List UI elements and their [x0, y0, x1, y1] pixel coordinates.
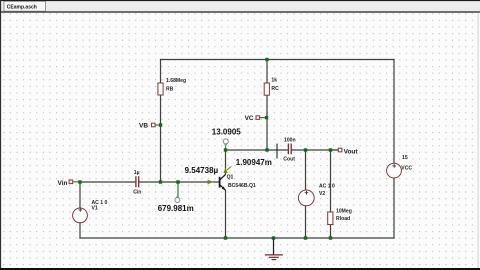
wire Rref bottom vertical [330, 225, 332, 239]
wire RB top vertical [160, 60, 162, 84]
wire collector rail left [226, 149, 288, 151]
node Vin port [58, 180, 73, 187]
svg-text:Rload: Rload [336, 216, 350, 222]
node VC junction [265, 116, 268, 119]
bottom window edge [0, 268, 480, 270]
wire top rail [161, 59, 395, 61]
node Vin junction [78, 180, 81, 183]
wire VB port stub [156, 124, 159, 126]
annotation current cross marker [276, 144, 278, 159]
node emitter bottom junction [224, 236, 227, 239]
svg-text:VB: VB [139, 122, 148, 129]
node base probe junction [176, 180, 179, 183]
wire Vin to Cin [80, 181, 135, 183]
svg-text:1.90947m: 1.90947m [236, 158, 272, 167]
wire VC port stub [260, 117, 265, 119]
svg-text:V1: V1 [92, 205, 98, 211]
wire collector vertical [225, 150, 227, 174]
svg-text:100n: 100n [284, 137, 296, 143]
wire RB bottom vertical [160, 95, 162, 182]
svg-text:Cout: Cout [283, 157, 295, 163]
wire RC top vertical [266, 60, 268, 84]
node Rref bottom junction [329, 236, 332, 239]
wire RC bottom vertical [266, 95, 268, 150]
top window edge [0, 0, 480, 1]
annotation base current arrow [208, 180, 214, 184]
svg-text:BC546B.Q1: BC546B.Q1 [228, 183, 256, 189]
svg-text:Vin: Vin [58, 180, 68, 187]
svg-text:CEamp.asch: CEamp.asch [7, 4, 37, 10]
annotation collector current arrow [223, 166, 231, 173]
svg-text:1µ: 1µ [134, 170, 140, 176]
node collector corner junction [224, 148, 227, 151]
wire V2 top vertical [305, 150, 307, 190]
wire V1 top vertical [79, 182, 81, 208]
wire collector rail right [292, 149, 338, 151]
wire VCC bottom vertical [393, 178, 395, 238]
node VC port [245, 115, 260, 122]
svg-text:V2: V2 [319, 191, 325, 197]
node RC bottom junction [265, 148, 268, 151]
svg-text:1.68Meg: 1.68Meg [166, 78, 186, 84]
svg-text:13.0905: 13.0905 [212, 128, 241, 137]
document tab [4, 1, 46, 11]
node ground junction [272, 236, 275, 239]
svg-text:RB: RB [166, 86, 174, 92]
wire bottom rail [80, 237, 394, 239]
svg-text:15: 15 [402, 155, 408, 161]
node Vout port [338, 148, 358, 155]
svg-text:Vout: Vout [344, 148, 359, 155]
right canvas edge [477, 13, 480, 268]
wire Vin port stub [73, 181, 78, 183]
node VB junction [159, 123, 162, 126]
svg-text:9.54738µ: 9.54738µ [185, 166, 219, 175]
node top rail RC junction [265, 58, 268, 61]
svg-text:1k: 1k [271, 78, 277, 84]
svg-text:679.981m: 679.981m [158, 204, 194, 213]
wire V1 bottom vertical [79, 223, 81, 238]
svg-text:10Meg: 10Meg [336, 209, 352, 215]
wire Rref top vertical [330, 150, 332, 212]
tab bar background [0, 0, 480, 11]
svg-text:VC: VC [245, 115, 254, 122]
wire V2 bottom vertical [305, 206, 307, 238]
node base/RB junction [159, 180, 162, 183]
tab bar bottom border [0, 11, 480, 13]
wire Vout stub [331, 149, 339, 151]
wire collector probe stub [225, 147, 227, 150]
svg-text:AC 1 0: AC 1 0 [319, 184, 335, 190]
node V2 bottom junction [304, 236, 307, 239]
svg-text:RC: RC [271, 86, 279, 92]
node Rref top junction [329, 148, 332, 151]
wire base probe stub [177, 182, 179, 196]
svg-text:Cin: Cin [133, 189, 141, 195]
node VB port [139, 122, 155, 129]
wire emitter vertical [225, 190, 227, 238]
svg-text:VCC: VCC [401, 166, 412, 172]
wire Cin to Q1 base [139, 181, 219, 183]
left window edge [0, 0, 1, 270]
wire VCC top vertical [393, 60, 395, 164]
wire ground stub [273, 238, 275, 254]
svg-text:Q1: Q1 [227, 174, 234, 180]
node V2 top junction [304, 148, 307, 151]
